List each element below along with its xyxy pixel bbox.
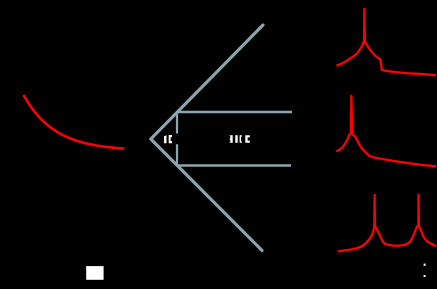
upper level line — [177, 111, 293, 114]
white legend box (bottom left) — [86, 266, 103, 280]
splitting vertical line upper segment — [176, 112, 178, 134]
label fragment A (near apex) — [164, 135, 167, 143]
colon dot lower (bottom right) — [424, 275, 426, 277]
dressed-state upper branch — [151, 25, 263, 139]
middle spectrum (single peak) — [336, 96, 436, 166]
label fragment B (near apex) — [169, 135, 172, 143]
lower level line — [177, 164, 292, 167]
bottom spectrum (Mollow doublet, two peaks) — [338, 195, 437, 252]
dressed-state lower branch — [151, 139, 262, 251]
splitting vertical line lower segment — [176, 144, 178, 165]
label fragment C2 — [235, 135, 237, 143]
label fragment C4 — [245, 135, 250, 143]
decay curve (left, red) — [24, 96, 123, 149]
colon dot upper (bottom right) — [424, 264, 426, 266]
top spectrum (weak drive, single peak) — [337, 9, 436, 75]
label fragment C3 — [240, 135, 243, 143]
label fragment C1 — [229, 135, 232, 143]
